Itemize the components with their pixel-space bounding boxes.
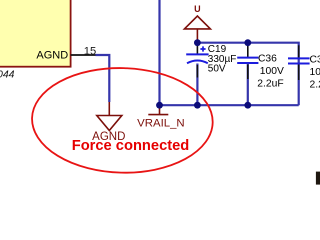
svg-text:C36: C36 <box>258 54 277 65</box>
top wire U net with corner <box>197 43 298 105</box>
power port U triangle <box>184 16 210 42</box>
pin 15 line <box>71 54 96 56</box>
svg-text:VRAIL_N: VRAIL_N <box>137 117 184 129</box>
svg-text:U: U <box>194 4 201 14</box>
svg-text:50V: 50V <box>208 64 226 75</box>
C37 labels (clipped at right edge) <box>310 54 320 90</box>
junction U/C19 <box>194 39 201 46</box>
junction C36 top <box>244 39 251 46</box>
junction C36 bottom <box>244 102 251 109</box>
svg-text:2.2uF: 2.2uF <box>257 79 283 90</box>
svg-text:AGND: AGND <box>36 50 68 62</box>
svg-text:100V: 100V <box>260 66 284 77</box>
junction C19 bottom <box>194 102 201 109</box>
svg-text:2.2uF: 2.2uF <box>310 80 320 91</box>
annotation ellipse <box>31 66 214 175</box>
junction VRAIL_N <box>156 102 163 109</box>
capacitor C19 (polarized) <box>186 45 208 105</box>
wire pin15 to AGND <box>96 55 110 102</box>
power port VRAIL_N <box>148 105 168 114</box>
wire vertical to VRAIL_N junction <box>158 0 160 105</box>
power port AGND <box>97 102 122 131</box>
IC body (yellow component outline) <box>0 0 71 67</box>
bottom wire VRAIL_N net <box>160 104 299 106</box>
C36 labels <box>257 54 284 90</box>
capacitor C36 <box>237 45 258 105</box>
C19 labels <box>208 44 237 75</box>
svg-text:Force connected: Force connected <box>72 138 190 154</box>
svg-text:044: 044 <box>0 69 15 81</box>
svg-text:15: 15 <box>84 45 96 57</box>
svg-text:100V: 100V <box>310 67 320 78</box>
svg-text:C37: C37 <box>310 54 320 65</box>
clipped bold text fragment (right edge) <box>316 172 320 185</box>
capacitor C37 <box>288 45 310 80</box>
